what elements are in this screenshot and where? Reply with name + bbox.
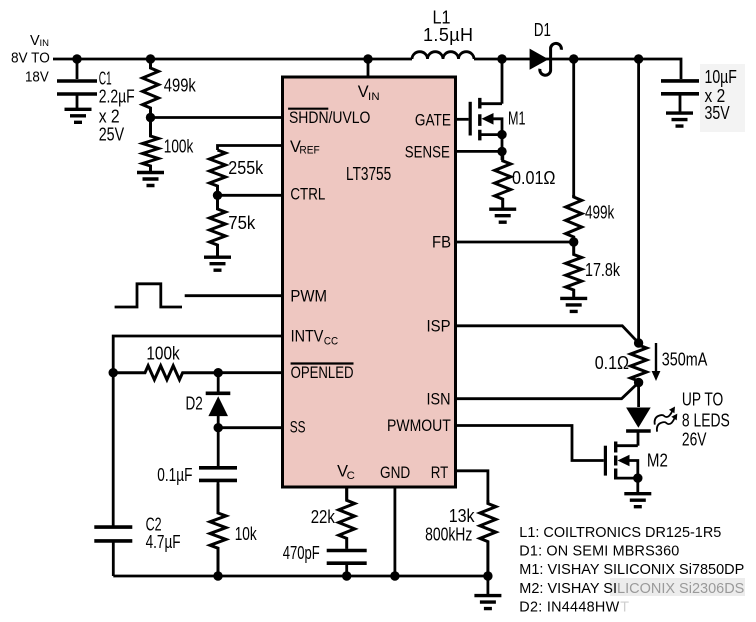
svg-text:35V: 35V xyxy=(705,103,730,123)
svg-text:GND: GND xyxy=(380,464,410,482)
svg-text:D2: IN4448HW: D2: IN4448HW xyxy=(519,600,619,616)
svg-text:ISP: ISP xyxy=(427,317,451,335)
svg-text:100k: 100k xyxy=(164,137,194,157)
svg-text:499k: 499k xyxy=(585,202,615,222)
svg-text:10k: 10k xyxy=(235,524,258,544)
svg-text:OPENLED: OPENLED xyxy=(291,364,354,382)
svg-text:75k: 75k xyxy=(228,213,256,233)
svg-text:GATE: GATE xyxy=(415,112,451,130)
svg-text:0.1µF: 0.1µF xyxy=(157,465,192,485)
svg-text:LT3755: LT3755 xyxy=(346,163,391,184)
svg-text:M1: M1 xyxy=(508,109,526,129)
svg-text:PWMOUT: PWMOUT xyxy=(387,417,451,435)
svg-text:2.2µF: 2.2µF xyxy=(99,87,135,107)
svg-text:470pF: 470pF xyxy=(283,543,320,563)
svg-text:M2: VISHAY SI: M2: VISHAY SI xyxy=(519,581,617,597)
svg-text:499k: 499k xyxy=(164,75,197,95)
svg-text:D1: ON SEMI MBRS360: D1: ON SEMI MBRS360 xyxy=(519,543,679,559)
svg-text:T: T xyxy=(620,600,629,616)
svg-text:8 LEDS: 8 LEDS xyxy=(682,410,730,430)
svg-text:M1: VISHAY SILICONIX Si7850DP: M1: VISHAY SILICONIX Si7850DP xyxy=(519,562,744,578)
svg-text:C: C xyxy=(347,470,355,482)
svg-text:x 2: x 2 xyxy=(99,106,120,126)
svg-text:1.5µH: 1.5µH xyxy=(423,25,473,45)
svg-text:SHDN/UVLO: SHDN/UVLO xyxy=(289,109,370,127)
svg-text:LICONIX Si2306DS: LICONIX Si2306DS xyxy=(617,581,744,597)
svg-text:UP TO: UP TO xyxy=(682,390,723,410)
svg-text:V: V xyxy=(30,33,40,49)
svg-text:L1: COILTRONICS DR125-1R5: L1: COILTRONICS DR125-1R5 xyxy=(519,525,721,541)
svg-text:IN: IN xyxy=(40,38,50,49)
svg-text:13k: 13k xyxy=(449,506,476,526)
svg-text:10µF: 10µF xyxy=(705,67,737,87)
svg-text:PWM: PWM xyxy=(290,287,327,305)
svg-text:350mA: 350mA xyxy=(662,349,708,369)
svg-text:D1: D1 xyxy=(534,20,551,40)
svg-text:18V: 18V xyxy=(25,69,49,85)
svg-text:RT: RT xyxy=(431,464,449,482)
svg-text:800kHz: 800kHz xyxy=(425,525,472,545)
svg-text:17.8k: 17.8k xyxy=(585,260,621,280)
svg-text:255k: 255k xyxy=(228,158,264,178)
svg-text:4.7µF: 4.7µF xyxy=(146,532,181,552)
svg-text:100k: 100k xyxy=(146,344,180,364)
svg-text:25V: 25V xyxy=(99,124,124,144)
svg-text:IN: IN xyxy=(368,91,380,103)
svg-text:SENSE: SENSE xyxy=(405,143,450,161)
svg-text:REF: REF xyxy=(299,144,319,156)
svg-text:FB: FB xyxy=(432,234,451,252)
svg-text:8V TO: 8V TO xyxy=(11,51,50,67)
svg-text:SS: SS xyxy=(290,419,306,437)
svg-text:M2: M2 xyxy=(647,450,668,470)
svg-text:26V: 26V xyxy=(682,430,707,450)
svg-text:22k: 22k xyxy=(311,507,336,527)
svg-text:CTRL: CTRL xyxy=(290,185,325,203)
svg-text:ISN: ISN xyxy=(427,390,451,408)
svg-text:D2: D2 xyxy=(186,394,203,414)
svg-text:0.1Ω: 0.1Ω xyxy=(595,353,629,373)
svg-text:INTV: INTV xyxy=(291,328,324,346)
svg-text:CC: CC xyxy=(324,335,338,347)
svg-text:0.01Ω: 0.01Ω xyxy=(512,168,556,188)
